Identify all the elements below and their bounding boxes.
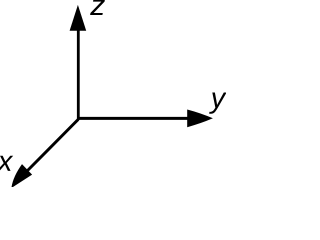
wire y-axis (horizontal) (77, 117, 189, 120)
arrowhead y (187, 110, 213, 128)
label y (209, 93, 227, 114)
label z (90, 0, 105, 15)
3D coordinate axes diagram (0, 0, 226, 187)
arrowhead x (11, 164, 32, 188)
wire z-axis (vertical) (77, 28, 80, 120)
arrowhead z (70, 5, 87, 31)
wire x-axis (diagonal) (28, 119, 79, 170)
label x (0, 156, 13, 171)
